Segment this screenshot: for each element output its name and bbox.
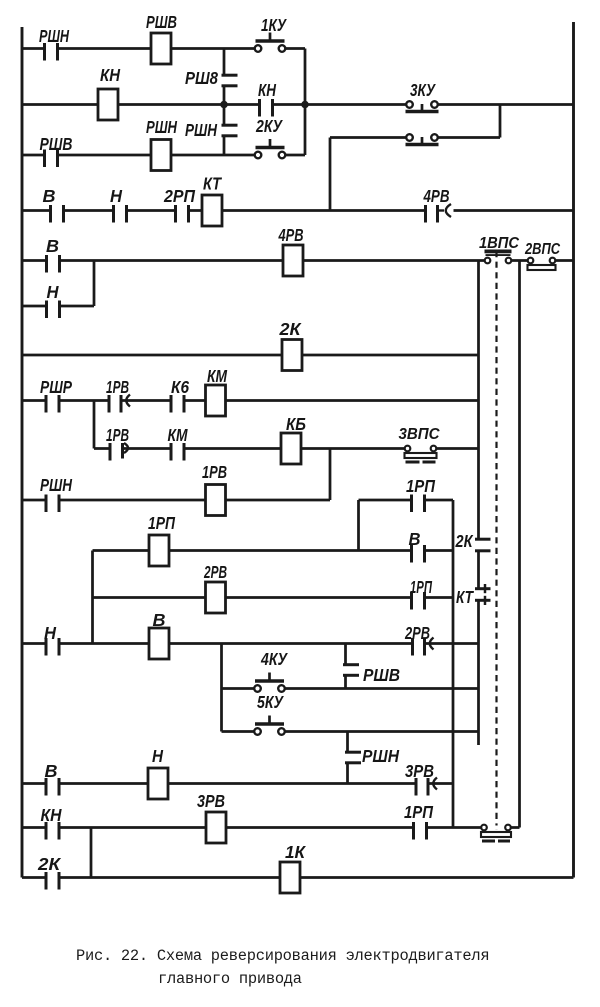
svg-text:К6: К6 (171, 377, 189, 397)
svg-text:КМ: КМ (168, 425, 188, 445)
svg-text:КТ: КТ (456, 587, 474, 607)
svg-text:РШВ: РШВ (363, 665, 400, 685)
svg-text:В: В (46, 236, 59, 256)
svg-text:1КУ: 1КУ (261, 15, 287, 35)
svg-text:2РП: 2РП (163, 186, 195, 206)
svg-text:3РВ: 3РВ (197, 791, 225, 811)
svg-text:1РП: 1РП (148, 513, 175, 533)
svg-text:1РВ: 1РВ (106, 377, 129, 397)
svg-text:Н: Н (152, 746, 163, 766)
svg-text:В: В (409, 529, 421, 549)
svg-text:4КУ: 4КУ (260, 649, 288, 669)
svg-text:2ВПС: 2ВПС (524, 241, 560, 258)
svg-text:1РВ: 1РВ (106, 425, 129, 445)
svg-text:РШН: РШН (40, 475, 72, 495)
svg-text:4РВ: 4РВ (423, 186, 450, 206)
svg-text:главного привода: главного привода (158, 970, 302, 988)
svg-text:2К: 2К (37, 854, 61, 874)
svg-text:2РВ: 2РВ (404, 623, 430, 643)
svg-text:В: В (153, 610, 166, 630)
svg-text:1ВПС: 1ВПС (479, 235, 520, 252)
svg-text:Н: Н (47, 282, 59, 302)
svg-text:Н: Н (44, 623, 56, 643)
svg-text:1К: 1К (285, 842, 306, 862)
svg-text:РШН: РШН (185, 120, 217, 140)
svg-text:1РП: 1РП (410, 577, 432, 597)
svg-text:РШР: РШР (40, 377, 72, 397)
svg-text:3ВПС: 3ВПС (399, 426, 441, 443)
svg-text:РШН: РШН (39, 26, 69, 46)
svg-text:В: В (43, 186, 56, 206)
svg-text:КН: КН (100, 65, 120, 85)
svg-text:РШН: РШН (362, 746, 399, 766)
svg-text:5КУ: 5КУ (257, 692, 284, 712)
svg-text:КН: КН (258, 80, 276, 100)
svg-text:2РВ: 2РВ (203, 562, 227, 582)
svg-text:2К: 2К (278, 319, 301, 339)
svg-text:В: В (45, 761, 58, 781)
svg-text:1РП: 1РП (406, 476, 435, 496)
svg-text:РШВ: РШВ (146, 12, 177, 32)
svg-text:КТ: КТ (203, 174, 222, 194)
svg-text:КМ: КМ (207, 366, 227, 386)
svg-text:Рис. 22. Схема реверсирования: Рис. 22. Схема реверсирования электродви… (76, 947, 489, 965)
svg-text:РШ8: РШ8 (185, 68, 218, 88)
svg-text:2К: 2К (455, 531, 474, 551)
svg-text:КБ: КБ (286, 414, 306, 434)
svg-text:3КУ: 3КУ (410, 80, 436, 100)
svg-text:2КУ: 2КУ (255, 116, 283, 136)
svg-text:3РВ: 3РВ (405, 761, 434, 781)
svg-text:1РВ: 1РВ (202, 462, 227, 482)
svg-text:КН: КН (41, 805, 62, 825)
svg-text:Н: Н (110, 186, 122, 206)
svg-text:4РВ: 4РВ (278, 225, 304, 245)
svg-text:РШВ: РШВ (40, 134, 73, 154)
svg-text:1РП: 1РП (404, 802, 433, 822)
svg-text:РШН: РШН (146, 117, 177, 137)
